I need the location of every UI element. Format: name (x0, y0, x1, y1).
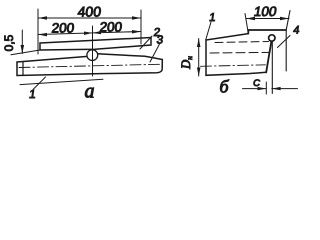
centerline (dash-dot) fig b (201, 65, 266, 67)
leader for label 2 (140, 36, 152, 49)
board bottom double line (20, 79, 103, 84)
dimension line 400 (38, 17, 141, 19)
svg-text:100: 100 (253, 4, 279, 19)
board left end second edge (22, 62, 24, 75)
board top edge left of circle (17, 56, 88, 62)
C extension line left (265, 82, 267, 94)
bar body (fig b) (206, 34, 266, 76)
dimension line 200 200 (sloped chain) (38, 32, 141, 35)
dimension line 100 (246, 18, 289, 20)
svg-text:200: 200 (99, 20, 123, 35)
Dn height dimension line (198, 39, 200, 77)
hidden dashed line upper (215, 42, 269, 43)
svg-text:0,5: 0,5 (2, 34, 16, 51)
figure a: extension line right x=141 (140, 10, 142, 44)
leader for label 4 (278, 36, 291, 48)
svg-text:б: б (219, 77, 229, 97)
hidden dashed line lower (210, 51, 270, 54)
leader for label 1 (fig b) (206, 22, 211, 40)
extension line through circle (92, 50, 94, 62)
svg-text:400: 400 (77, 4, 102, 20)
figure a: extension line left x=38 (37, 9, 39, 54)
svg-text:а: а (85, 81, 95, 103)
pin circle at center (87, 50, 98, 61)
loop circle at wedge top (269, 35, 275, 41)
svg-text:200: 200 (51, 21, 75, 36)
figure a: extension line middle x=92.5 (92, 26, 94, 76)
wedge right vertical line / C extension (271, 40, 273, 94)
extension line left for 100 (245, 14, 248, 34)
board (item 1) outline (17, 54, 162, 76)
straightedge bar (item 2) (40, 38, 151, 51)
leader for label 1 (fig a) (34, 77, 46, 89)
step at top right (248, 30, 286, 34)
wedge split at right end: slant line (266, 41, 271, 73)
C dimension (243, 88, 267, 90)
dimension 0,5 vertical line with arrow (21, 30, 23, 54)
svg-text:C: C (253, 78, 260, 89)
board centerline (dash-dot) (19, 64, 160, 67)
right vertical edge / 100 extension (286, 11, 290, 72)
straightedge bottom edge extension line to left (11, 50, 40, 55)
leader for label 3 (150, 44, 160, 62)
